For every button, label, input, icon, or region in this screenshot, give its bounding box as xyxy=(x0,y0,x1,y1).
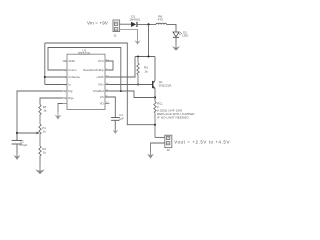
svg-text:IF NO LIMIT NEEDED.: IF NO LIMIT NEEDED. xyxy=(157,116,190,120)
svg-text:1N4001: 1N4001 xyxy=(129,18,140,22)
node wiper xyxy=(16,132,18,134)
svg-text:Vout = +2.5V to +4.5V: Vout = +2.5V to +4.5V xyxy=(174,140,230,145)
svg-text:+4Vfb: +4Vfb xyxy=(96,75,104,79)
svg-text:CvSense: CvSense xyxy=(68,75,80,79)
ground under LED xyxy=(172,46,180,51)
IC left pin labels xyxy=(68,59,80,100)
svg-text:1k: 1k xyxy=(144,69,148,73)
ground at J1 xyxy=(134,40,140,44)
capacitor C2 xyxy=(12,133,23,154)
svg-text:J2: J2 xyxy=(166,148,170,152)
ground at J2 xyxy=(147,154,154,159)
svg-text:1k: 1k xyxy=(43,151,47,155)
wire loop A (CvSense) xyxy=(45,43,155,125)
wire LED to ground xyxy=(175,38,177,46)
svg-text:1k: 1k xyxy=(43,108,47,112)
wire R6 to LED xyxy=(167,24,177,31)
ground at IC left xyxy=(55,115,62,120)
node loopA pin3 xyxy=(44,76,46,78)
node loopB join xyxy=(120,90,122,92)
svg-text:470: 470 xyxy=(158,17,163,21)
svg-text:Rge: Rge xyxy=(68,96,74,100)
svg-text:555CN: 555CN xyxy=(78,51,91,55)
wire VCC pins xyxy=(106,61,114,70)
svg-text:In: In xyxy=(68,83,71,87)
wire J2 pin2 to ground xyxy=(151,143,165,152)
ground at C1 xyxy=(113,130,119,134)
IC U1 box xyxy=(67,54,105,109)
potentiometer P1 xyxy=(39,124,41,146)
capacitor C1 xyxy=(111,118,119,130)
svg-text:J1: J1 xyxy=(113,34,117,38)
svg-text:VOutRef: VOutRef xyxy=(93,89,104,93)
svg-text:Vin = +9V: Vin = +9V xyxy=(87,20,108,25)
resistor R6 xyxy=(156,23,167,24)
wire GND stub left xyxy=(58,104,63,112)
wire Rge row to divider xyxy=(40,98,63,105)
svg-text:VO: VO xyxy=(100,102,105,106)
resistor RCL xyxy=(154,98,156,138)
resistor R1 xyxy=(39,105,41,125)
svg-text:VCC: VCC xyxy=(98,59,104,63)
label RCL note xyxy=(157,102,195,120)
node rail Vin xyxy=(148,56,150,58)
wire Rge pin to C1 xyxy=(106,97,116,117)
wire RCL to J2 pin1 xyxy=(155,136,165,138)
node emitter xyxy=(154,96,156,98)
node +V junction xyxy=(147,23,149,25)
diode D1 xyxy=(131,22,138,27)
wire D1 cathode to +V node xyxy=(138,23,157,25)
svg-text:2N2222A: 2N2222A xyxy=(159,83,173,87)
wire wiper to P1 xyxy=(17,132,36,134)
ground at C2 xyxy=(14,155,21,160)
connector J1 xyxy=(113,20,120,32)
wire J1 pin1 to D1 anode xyxy=(120,23,131,25)
transistor Q1 xyxy=(152,57,155,98)
svg-text:ResetDownPullUp: ResetDownPullUp xyxy=(83,68,104,72)
svg-text:VO+: VO+ xyxy=(98,83,104,87)
wire loop B (CvLim sense) xyxy=(48,48,121,92)
svg-text:0.1µF: 0.1µF xyxy=(20,143,28,147)
svg-text:VC: VC xyxy=(100,95,104,99)
IC pin stubs left xyxy=(63,61,68,104)
svg-text:1k: 1k xyxy=(43,130,47,134)
LED D2 xyxy=(173,32,182,37)
svg-text:Flg: Flg xyxy=(68,89,72,93)
P1 wiper arrow xyxy=(36,132,39,135)
IC right pin labels xyxy=(83,59,104,106)
wire sense VOutRef to emitter xyxy=(106,91,156,98)
wire rail to pin +4Vfb xyxy=(106,57,136,78)
node R3 base xyxy=(137,84,139,86)
ground under R2 xyxy=(35,169,45,174)
wire J1 pin2 to ground arrow xyxy=(120,29,138,40)
IC right pin numbers xyxy=(106,59,109,104)
wire +V down to rail xyxy=(148,24,150,56)
svg-text:LED: LED xyxy=(182,34,189,38)
resistor R3 xyxy=(137,57,139,85)
resistor R2 xyxy=(39,146,41,166)
svg-text:CvLim: CvLim xyxy=(68,68,77,72)
wire In pin long feedback xyxy=(17,91,63,133)
node below RCL xyxy=(154,124,156,126)
wire +V rail xyxy=(135,56,155,58)
IC pin stubs right xyxy=(105,61,110,104)
svg-text:GND: GND xyxy=(68,59,74,63)
node rail R3 xyxy=(137,56,139,58)
connector J2 xyxy=(165,135,172,147)
svg-text:1µF: 1µF xyxy=(119,116,124,120)
IC left pin numbers xyxy=(65,61,67,100)
wire base drive xyxy=(106,84,153,86)
